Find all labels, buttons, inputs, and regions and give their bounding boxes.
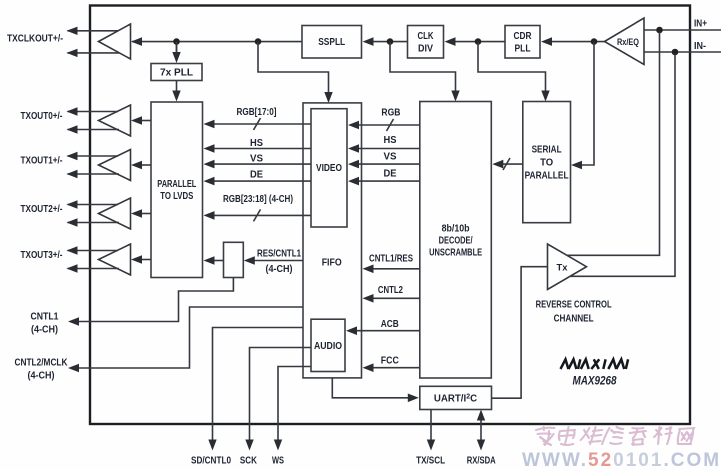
glyph zi xyxy=(628,428,646,445)
wire RGB 8b/10b to VIDEO xyxy=(359,124,420,126)
wire TXOUT3- xyxy=(68,268,120,270)
arrowhead CNTL2/MCLK xyxy=(68,364,79,372)
arrowhead into SSPLL xyxy=(363,37,374,46)
wire dot B down to FIFO top xyxy=(258,42,329,93)
glyph wei xyxy=(580,427,602,444)
box 7x PLL xyxy=(151,64,202,81)
arrowhead into 7x PLL xyxy=(172,52,180,63)
node dot on IN- xyxy=(672,49,679,56)
wire dot E down to SERIAL TO PARALLEL right xyxy=(581,42,594,165)
wire SD/CNTL0 xyxy=(213,328,304,441)
arrowhead into TXCLKOUT buffer xyxy=(131,37,142,46)
wire FIFO bottom to UART xyxy=(332,378,408,398)
box CLK DIV xyxy=(408,26,444,59)
wire DE 8b/10b to VIDEO xyxy=(359,180,420,182)
arrowhead into FIFO top xyxy=(324,92,332,103)
node junction dot B xyxy=(255,38,262,45)
node junction dot C xyxy=(387,38,394,45)
arrowhead P2L into TXOUT3 xyxy=(131,255,142,263)
wire CDR PLL to CLK DIV xyxy=(455,41,505,43)
arrowhead WS xyxy=(274,440,282,451)
wire FIFO to RES/CNTL1 box xyxy=(254,260,303,262)
glyph jia xyxy=(534,427,555,445)
arrowhead into 8b/10b right xyxy=(492,160,503,169)
wire Rx/EQ to CDR PLL xyxy=(552,41,605,43)
buffer TXOUT2 triangle xyxy=(99,198,131,229)
wire dot D down to SERIAL TO PARALLEL top xyxy=(478,42,546,91)
glyph liao xyxy=(653,427,672,444)
wire RX/SDA xyxy=(480,418,482,440)
arrowhead into UART left xyxy=(408,394,419,403)
node junction dot E xyxy=(591,38,598,45)
arrowhead RX/SDA down xyxy=(477,440,485,451)
buffer TXOUT0 triangle xyxy=(99,105,131,136)
bus slash RGB right xyxy=(387,119,394,131)
wire TXCLKOUT- output xyxy=(68,52,120,54)
box CDR PLL xyxy=(505,26,540,59)
arrowhead P2L into TXOUT0 xyxy=(131,116,142,124)
wire CNTL1 out xyxy=(79,278,233,322)
arrowhead TX/SCL xyxy=(427,440,435,451)
box PARALLEL TO LVDS xyxy=(151,102,203,278)
box AUDIO xyxy=(311,319,345,371)
wire WS xyxy=(278,367,311,441)
arrowhead SCK xyxy=(245,440,253,451)
wire IN+ xyxy=(644,29,721,31)
arrowhead into 8b/10b top xyxy=(451,91,459,102)
node dot on IN+ xyxy=(656,27,663,34)
arrowhead into CDR PLL xyxy=(541,37,552,46)
bus slash RGB[23:18] xyxy=(254,209,261,221)
wire HS VIDEO to P2L xyxy=(214,148,311,150)
buffer TXCLKOUT triangle xyxy=(99,24,131,59)
chip outline MAX9268 xyxy=(90,6,690,425)
wire CNTL2 8b/10b to FIFO xyxy=(373,297,420,299)
wire SERIAL TO PARALLEL to 8b/10b xyxy=(503,163,523,165)
bus slash S2P line xyxy=(503,158,510,170)
wire RGB[17:0] VIDEO to P2L xyxy=(214,123,311,125)
wire TXOUT3+ xyxy=(68,250,119,252)
wire TXOUT0- xyxy=(68,129,120,131)
wire TX/SCL xyxy=(430,410,432,441)
box SSPLL xyxy=(302,26,362,59)
arrowhead into PARALLEL TO LVDS top xyxy=(172,91,180,102)
glyph wang xyxy=(677,428,694,444)
wire VS 8b/10b to VIDEO xyxy=(359,163,420,165)
arrowhead into SERIAL TO PARALLEL right xyxy=(571,161,582,170)
box 8b/10b DECODE/UNSCRAMBLE xyxy=(420,102,492,379)
wire TXOUT1+ xyxy=(68,155,119,157)
arrowhead TXCLKOUT+ xyxy=(67,27,78,35)
wire CNTL2/MCLK out xyxy=(79,307,303,368)
glyph xiu xyxy=(602,427,623,444)
arrowhead P2L into TXOUT2 xyxy=(131,209,142,217)
wire TXOUT2+ xyxy=(68,204,119,206)
arrowhead SD/CNTL0 xyxy=(208,440,216,451)
arrowhead TXCLKOUT- xyxy=(67,49,78,57)
arrowhead CNTL1 xyxy=(68,317,79,325)
wire RES/CNTL1 box to P2L xyxy=(214,260,224,262)
wire VS VIDEO to P2L xyxy=(214,163,311,165)
arrowhead into P2L right xyxy=(204,256,215,265)
wire SCK xyxy=(250,348,312,441)
buffer TXOUT1 triangle xyxy=(99,150,131,181)
wire CLK DIV to SSPLL xyxy=(373,41,408,43)
logo MAXIM xyxy=(561,359,629,369)
wire RGB[23:18] VIDEO to P2L xyxy=(214,214,311,216)
box UART/I2C xyxy=(420,386,492,409)
wire TXOUT0+ xyxy=(68,111,119,113)
node junction dot A xyxy=(173,38,180,45)
wire IN- xyxy=(644,51,721,53)
wire HS 8b/10b to VIDEO xyxy=(359,148,420,150)
wire dot A to 7x PLL xyxy=(176,42,178,53)
glyph dian xyxy=(558,427,576,445)
wire ACB 8b/10b to AUDIO xyxy=(357,330,420,332)
arrowhead P2L into TXOUT1 xyxy=(131,161,142,169)
wire 7x PLL to PARALLEL TO LVDS xyxy=(176,81,178,92)
wire DE VIDEO to P2L xyxy=(214,180,311,182)
wire UART to Tx xyxy=(492,267,548,399)
wire dot C down to 8b/10b top xyxy=(390,42,456,91)
wire TXOUT2- xyxy=(68,222,120,224)
watermark WWW.520101.COM xyxy=(522,450,721,470)
bus slash RGB[17:0] xyxy=(254,118,261,130)
wire CNTL1/RES 8b/10b to FIFO xyxy=(373,268,420,270)
box FIFO (outer) xyxy=(303,103,362,378)
arrowhead into CLK DIV xyxy=(445,37,456,46)
box RES/CNTL1 xyxy=(224,242,244,277)
amplifier Tx xyxy=(548,244,587,290)
wire TXCLKOUT+ output xyxy=(68,30,119,32)
buffer TXOUT3 triangle xyxy=(99,244,131,275)
arrowhead RX/SDA up into UART xyxy=(477,410,485,421)
wire Tx out lower to IN- xyxy=(570,54,675,276)
box SERIAL TO PARALLEL xyxy=(523,102,571,223)
arrowhead into RES/CNTL1 box xyxy=(244,256,255,265)
box VIDEO xyxy=(311,109,347,227)
wire Tx out upper to IN+ xyxy=(567,32,660,255)
node junction dot D xyxy=(475,38,482,45)
arrowhead into SERIAL TO PARALLEL top xyxy=(541,91,549,102)
amplifier Rx/EQ xyxy=(605,18,645,65)
wire clock main line xyxy=(132,41,302,43)
wire TXOUT1- xyxy=(68,173,120,175)
wire FCC 8b/10b to FIFO xyxy=(373,367,420,369)
